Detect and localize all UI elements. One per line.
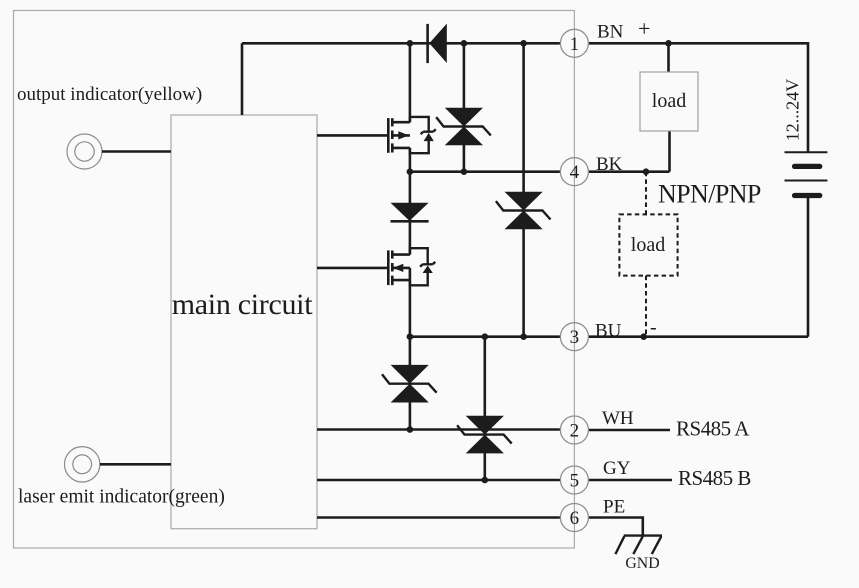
svg-text:NPN/PNP: NPN/PNP	[658, 180, 761, 209]
svg-text:load: load	[652, 90, 686, 112]
svg-text:load: load	[631, 234, 665, 256]
svg-text:PE: PE	[603, 497, 625, 518]
svg-text:GND: GND	[625, 555, 659, 572]
svg-text:12...24V: 12...24V	[783, 79, 803, 142]
svg-text:RS485 B: RS485 B	[678, 466, 751, 490]
svg-text:-: -	[650, 317, 657, 339]
svg-text:6: 6	[570, 508, 580, 529]
svg-text:4: 4	[570, 162, 580, 183]
svg-text:5: 5	[570, 471, 580, 492]
svg-text:BU: BU	[595, 321, 622, 342]
svg-text:GY: GY	[603, 458, 631, 479]
svg-text:WH: WH	[602, 408, 634, 429]
svg-text:BN: BN	[597, 22, 624, 43]
svg-text:main circuit: main circuit	[172, 288, 313, 321]
svg-text:3: 3	[570, 327, 580, 348]
svg-text:laser emit indicator(green): laser emit indicator(green)	[18, 487, 225, 508]
svg-text:output indicator(yellow): output indicator(yellow)	[17, 84, 202, 105]
svg-text:1: 1	[570, 34, 580, 55]
svg-text:+: +	[638, 16, 650, 41]
svg-text:BK: BK	[596, 154, 623, 175]
svg-text:RS485 A: RS485 A	[676, 417, 750, 441]
svg-text:2: 2	[570, 421, 580, 442]
